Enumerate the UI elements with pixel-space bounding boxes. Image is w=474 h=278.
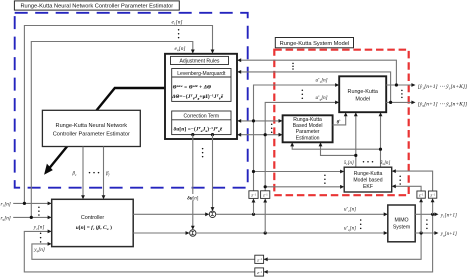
svg-text:Controller: Controller [81,215,105,221]
wire: yq riser through delay to EKF right input 2 [392,184,423,233]
junction u1*/EKF line [252,170,255,173]
svg-text:ΔΘ=−(JTθJθ+μI)−1JTθē: ΔΘ=−(JTθJθ+μI)−1JTθē [171,94,224,101]
svg-text:Controller Parameter Estimator: Controller Parameter Estimator [53,132,130,138]
block: Runga-Kutta Based Model Parameter Estimation [283,115,333,142]
svg-text:EKF: EKF [363,184,373,190]
block: MIMO System [388,205,415,242]
svg-text:Runge-Kutta: Runge-Kutta [348,89,378,95]
svg-text:MIMO: MIMO [394,217,408,223]
vdots between u* wires [302,89,304,99]
block: Adjustment Rules outer box [165,54,237,139]
wire: u1 controller output to sum1 [133,212,209,216]
wire: u1* riser through delay up to RK model [252,83,340,214]
wire: beta1 from RKNN to controller [81,147,85,200]
block: Correction Term [172,111,231,135]
svg-text:e1[n]: e1[n] [172,19,183,25]
vdots between y labels [40,233,42,243]
svg-text:Runge-Kutta Neural Network Con: Runge-Kutta Neural Network Controller Pa… [20,4,173,10]
vdots between r labels [38,206,40,215]
svg-text:Runge-Kutta Neural Network: Runge-Kutta Neural Network [56,123,128,129]
delay z-1 on y1 to EKF [428,191,436,198]
junction u1* tap to delay [252,213,255,216]
label e1[n] [172,19,183,25]
svg-text:Parameter: Parameter [296,129,320,135]
wire: du to sum1 [211,135,215,212]
vdots right of EKF [399,175,401,184]
svg-text:Model: Model [355,96,370,102]
label y1[n+1] [440,214,457,219]
label xhatn[n] [380,161,391,166]
wire: theta hat from param estimation to RK model [333,112,348,125]
wire: rq input to controller [13,216,52,220]
wire: xhatn from EKF to RK model and param estimation [290,112,382,167]
summing node sum1 [209,211,215,218]
block: Adjustment Rules title [171,56,229,64]
block: Runge-Kutta Model based EKF [344,167,392,192]
svg-text:Correction Term: Correction Term [184,113,219,119]
svg-text:yq[n]: yq[n] [33,247,45,253]
wire: xhat1 from EKF to RK model and param estimation [319,112,358,167]
delay z-1 on uq* [261,191,270,199]
wire: r1 input to controller [13,202,52,206]
junction uq*/param line [264,133,267,136]
svg-text:[ŷ1[n+1] ⋯ ŷ1[n+K]]: [ŷ1[n+1] ⋯ ŷ1[n+K]] [418,84,468,90]
wire: eq from rq junction up and across to adjustment rules [31,42,194,218]
wire: y1 riser through delay to EKF right input 1 [392,169,435,214]
block: Runge-Kutta Model [339,76,386,112]
label yq[n] [33,247,45,253]
block: Controller [52,199,134,246]
vdots between EKF input wires [324,175,326,184]
junction RK output 2 [389,101,392,104]
svg-text:[ŷq[n+1] ⋯ ŷq[n+K]]: [ŷq[n+1] ⋯ ŷq[n+K]] [418,101,468,107]
junction du1 on correction term bottom [211,133,214,136]
wire: e1 from r1 junction up and across to adjustment rules [24,26,214,204]
label beta1 [72,172,78,177]
svg-text:u*q[n]: u*q[n] [316,95,328,102]
block: Runge-Kutta Neural Network Controller Parameter Estimator (RKNN) [42,110,140,146]
svg-text:x̂n[n]: x̂n[n] [380,161,391,166]
svg-text:β1: β1 [72,172,78,177]
hdots between beta labels [89,172,100,174]
svg-text:yq[n+1]: yq[n+1] [440,232,457,237]
label rq[n] [1,215,11,221]
svg-text:Levenberg-Marquardt: Levenberg-Marquardt [177,71,226,77]
block: Levenberg-Marquardt [171,69,231,102]
wire: RK model output 2 to label and feedback to adjustment [237,70,415,104]
delay z-1 on yq feedback [255,255,264,263]
junction du2 on correction term bottom [191,133,194,136]
vdots between e1 and eq [178,29,180,38]
junction y1 tap [431,213,434,216]
label predicted outputs y1 [418,84,468,90]
junction yq tap [420,231,423,234]
label du[n] [187,194,201,201]
wire: du to sum2 [191,135,195,230]
label eq[n] [175,46,186,52]
svg-text:r1[n]: r1[n] [1,201,11,207]
label y1[n] [33,225,45,231]
label uq*[n] near MIMO [344,225,356,232]
svg-text:Σ: Σ [211,212,214,218]
wire: u_q controller output to sum2 [133,231,189,235]
svg-text:δu[n]: δu[n] [187,196,199,201]
wire: uq* riser through delay up to RK model [263,101,339,234]
svg-text:u*1[n]: u*1[n] [316,77,328,84]
vdots between feedback wires [292,63,294,70]
svg-text:System: System [393,224,410,230]
label uq*[n] near RK model [316,95,328,102]
svg-text:u*q[n]: u*q[n] [344,225,356,232]
wire: y1[n+1] output of MIMO [415,212,438,216]
label xhat1[n] [343,161,354,166]
svg-text:Runge-Kutta: Runge-Kutta [354,171,383,177]
label r1[n] [1,201,11,207]
junction uq*/EKF line [264,185,267,188]
junction r1/e1 [23,202,26,205]
summing node sum2 [190,230,196,237]
wire: RK model output 1 to label and feedback to adjustment [237,58,415,87]
wire: betaf from RKNN to controller [102,147,106,200]
vdots between MIMO outputs [426,219,428,229]
label yq[n+1] [440,232,457,237]
junction RK output 1 [395,83,398,86]
junction xhatn [379,148,382,151]
delay z-1 on y1 feedback [255,268,264,276]
wire: y1[n] feedback into controller [24,214,432,273]
svg-text:rq[n]: rq[n] [1,215,11,221]
vdots between MIMO input labels [360,219,362,229]
svg-text:Σ: Σ [191,231,194,237]
junction rq/eq [30,216,33,219]
svg-text:x̂1[n]: x̂1[n] [343,161,354,166]
wire: u1* to EKF input 1 [254,170,345,174]
svg-text:Runge-Kutta System Model: Runge-Kutta System Model [280,41,350,47]
vdots between param est input wires [271,123,273,133]
blue dashed boundary: controller parameter estimator region [15,13,248,188]
hdots between xhat labels [363,161,374,163]
svg-text:u*1[n]: u*1[n] [344,206,356,213]
svg-text:y1[n+1]: y1[n+1] [440,214,457,219]
svg-text:δu[n] =−(JTuJu)−1JTuē: δu[n] =−(JTuJu)−1JTuē [174,126,223,133]
label u1*[n] near MIMO [344,206,356,213]
label betaf [105,172,111,177]
wire: u1* from sum1 to MIMO [216,212,388,216]
wire: uq* to parameter estimation and adjustment rules [237,133,283,137]
label predicted outputs yq [418,101,468,107]
title box: Runge-Kutta Neural Network Controller Parameter Estimator [14,1,179,10]
delay z-1 on u1* [249,191,258,199]
svg-text:Adjustment Rules: Adjustment Rules [180,59,220,65]
junction uq* tap to delay [264,231,267,234]
vdots between du wires [202,148,204,158]
label u1*[n] near RK model [316,77,328,84]
wire: yq[n+1] output of MIMO [415,231,438,235]
junction u1*/param line [252,119,255,122]
svg-text:y1[n]: y1[n] [33,225,45,231]
svg-text:Model based: Model based [353,177,382,183]
wire: uq* from sum2 to MIMO [196,231,388,235]
wire: uq* to EKF input 2 [265,185,344,189]
junction xhat1 [354,154,357,157]
red dashed boundary: system model region [274,50,408,196]
wire: yq[n] feedback into controller [32,233,421,261]
vdots between RK outputs [401,90,403,99]
label theta hat [337,120,342,125]
svg-text:Estimation: Estimation [296,135,320,141]
delay z-1 on yq to EKF [417,191,425,198]
thick theta update line from Levenberg-Marquardt to estimator [45,86,173,174]
wire: u1* to parameter estimation and adjustment rules [237,119,283,123]
title box: Runge-Kutta System Model [275,38,353,48]
svg-text:eq[n]: eq[n] [175,46,186,52]
